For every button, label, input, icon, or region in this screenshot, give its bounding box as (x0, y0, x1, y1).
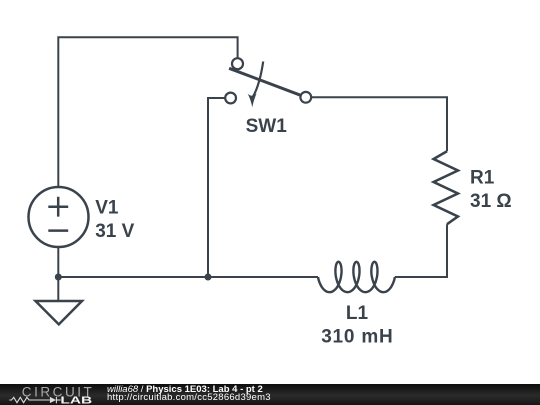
voltage source V1 circle (29, 187, 89, 247)
V1 plus sign (48, 197, 68, 217)
svg-text:V1: V1 (95, 198, 119, 219)
svg-text:31 Ω: 31 Ω (470, 191, 512, 212)
footer title line (107, 386, 271, 403)
svg-text:LAB: LAB (60, 395, 92, 405)
svg-text:310 mH: 310 mH (321, 326, 393, 347)
wire V1 bottom to ground node (57, 247, 59, 301)
ground symbol triangle (36, 301, 83, 324)
svg-text:31 V: 31 V (95, 221, 134, 242)
switch SW1 lower-left terminal circle (225, 93, 236, 104)
svg-text:R1: R1 (470, 168, 495, 189)
wire top-left rail: V1 top to switch top terminal (58, 37, 237, 187)
svg-text:SW1: SW1 (246, 116, 288, 137)
wire switch lower-left branch down to bottom rail (208, 98, 225, 277)
switch SW1 arm (229, 68, 301, 95)
switch SW1 actuation arrow curve (253, 62, 263, 98)
inductor L1 coil (318, 262, 395, 292)
resistor R1 zigzag (434, 151, 458, 224)
switch SW1 top terminal circle (232, 58, 243, 69)
switch SW1 arrowhead (248, 93, 257, 107)
svg-text:L1: L1 (346, 303, 369, 324)
wire bottom rail: ground node to inductor left (58, 276, 318, 278)
junction dot at switch branch on bottom rail (205, 274, 212, 281)
footer black bar (0, 384, 540, 405)
wire switch right terminal to top-right corner and down to resistor (311, 97, 447, 151)
CircuitLab logo (0, 384, 100, 405)
V1 minus sign (48, 229, 68, 232)
switch SW1 right terminal circle (300, 92, 311, 103)
logo resistor-diode squiggle (9, 397, 60, 403)
junction dot at ground node (55, 274, 62, 281)
wire resistor bottom to bottom-right corner to inductor right (395, 224, 447, 277)
